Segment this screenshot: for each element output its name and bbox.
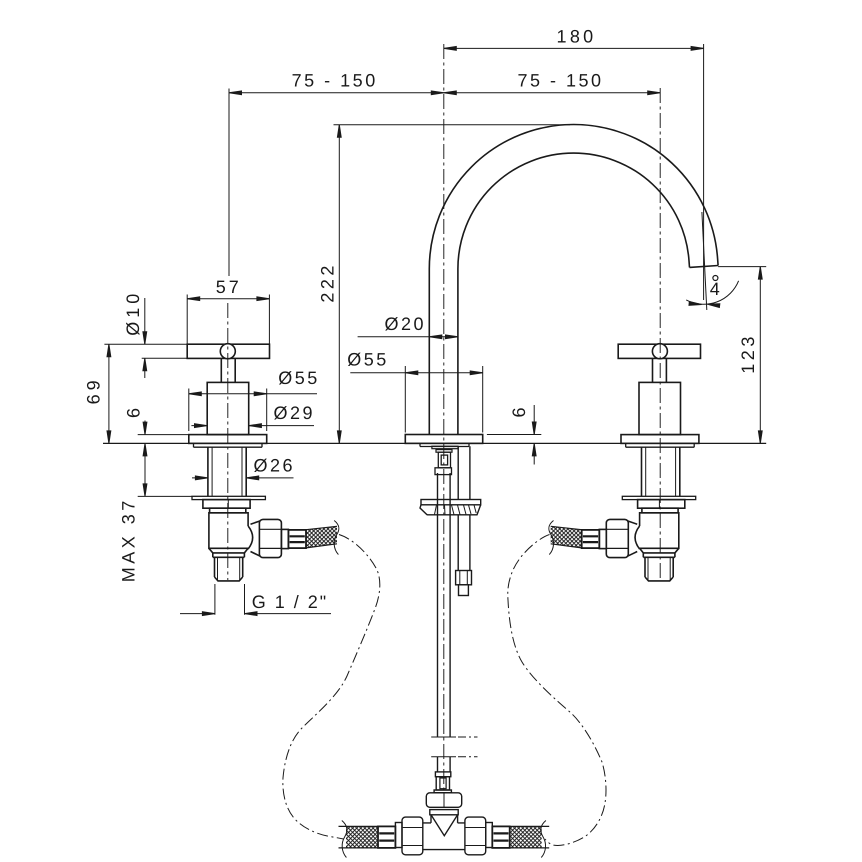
angle 4deg arc <box>686 281 738 304</box>
dimension 6 right: extension and arrows <box>487 434 541 436</box>
extension line right of 180 / 4deg reference <box>703 44 705 300</box>
locknut <box>203 500 250 509</box>
handle escutcheon D55 <box>189 435 267 444</box>
connector with window <box>438 452 450 468</box>
svg-text:6: 6 <box>123 405 143 418</box>
dimension 123 line <box>759 267 761 444</box>
spout gooseneck inner edge <box>458 153 690 434</box>
dimension D20 line <box>358 336 458 338</box>
port union nut <box>259 519 281 557</box>
dimension G 1/2 line and extensions <box>180 613 331 615</box>
svg-text:75 - 150: 75 - 150 <box>292 71 378 91</box>
center escutcheon lip <box>420 443 469 446</box>
dimension D55 center line and extensions <box>350 372 482 374</box>
extension line handle bar top <box>104 343 187 345</box>
svg-text:123: 123 <box>738 333 758 374</box>
center below-counter assembly <box>420 446 481 772</box>
left handle center line <box>227 303 229 580</box>
tee left hose break <box>342 821 347 858</box>
tee assembly at bottom <box>339 772 550 858</box>
svg-text:G 1 / 2": G 1 / 2" <box>252 592 328 612</box>
escutcheon lip <box>194 443 263 447</box>
counter top line <box>103 442 766 444</box>
svg-text:75 - 150: 75 - 150 <box>517 71 603 91</box>
dimension D26 line <box>192 477 294 479</box>
dimension D29 line <box>191 425 314 427</box>
main center line <box>443 44 445 791</box>
dimension 75-150 right line <box>444 92 660 94</box>
right handle center line (also 75-150 extension) <box>659 88 661 580</box>
dimension D55 left line and extensions <box>189 393 317 395</box>
tee left union nut <box>402 817 423 855</box>
handle hub circle <box>220 344 235 359</box>
hose ferrule <box>288 530 306 548</box>
handle cylinder D29 <box>207 382 249 434</box>
body port bulge <box>248 526 253 549</box>
svg-text:MAX 37: MAX 37 <box>118 497 138 582</box>
svg-text:Ø55: Ø55 <box>347 349 389 369</box>
dimension 57 line <box>187 298 269 300</box>
dimension 75-150 left line <box>229 92 444 94</box>
svg-text:Ø20: Ø20 <box>385 314 427 334</box>
dimension MAX 37 line <box>144 443 146 496</box>
svg-text:6: 6 <box>509 405 529 418</box>
spout mouth face <box>690 266 719 268</box>
spout gooseneck outer edge <box>429 124 718 434</box>
svg-text:222: 222 <box>318 262 338 303</box>
svg-text:57: 57 <box>216 277 242 297</box>
handle stem <box>221 359 235 383</box>
hose break curve <box>334 521 339 555</box>
svg-text:Ø10: Ø10 <box>123 290 143 336</box>
svg-text:180: 180 <box>557 26 597 46</box>
left phantom hose curve <box>283 535 380 840</box>
extension line spout top <box>334 124 571 126</box>
neck collar <box>210 508 246 513</box>
collar below window <box>434 790 451 793</box>
degree circle of 4deg <box>713 276 718 281</box>
lower collar <box>435 468 452 475</box>
dimension 180 line <box>444 47 704 49</box>
G1/2 nipple <box>215 557 243 581</box>
dimension 222 line <box>338 125 340 444</box>
left side assembly (handle + valve + hose) <box>187 344 339 581</box>
svg-text:Ø26: Ø26 <box>254 456 296 476</box>
extension line handle bar bottom <box>142 357 188 359</box>
body taper <box>209 548 248 553</box>
dimension 6 left: extension and arrows <box>138 434 189 436</box>
hose adapter <box>281 529 288 548</box>
braided hose <box>306 526 337 548</box>
extension line spout outlet <box>718 266 766 268</box>
right phantom hose curve <box>508 535 606 846</box>
mounting stud upper <box>458 446 470 499</box>
angle 4deg axis line <box>702 212 707 310</box>
center escutcheon <box>405 435 482 444</box>
stud nut <box>456 571 472 585</box>
tee left braided hose <box>346 826 378 848</box>
tube below break <box>438 757 451 772</box>
supply tube <box>438 473 451 737</box>
collar above window <box>435 772 450 777</box>
svg-text:69: 69 <box>83 376 103 404</box>
handle cross bar <box>187 344 269 358</box>
dimension D10: arrows above/below bar <box>144 298 146 344</box>
washer <box>192 496 265 499</box>
mounting bracket <box>421 500 481 505</box>
valve body <box>209 513 248 549</box>
nut collar <box>430 810 458 815</box>
extension line left handle top <box>228 89 230 277</box>
thread band <box>213 553 245 557</box>
svg-text:4: 4 <box>710 279 720 299</box>
step under lip <box>432 446 458 449</box>
svg-text:Ø29: Ø29 <box>274 403 316 423</box>
threaded shank D26 <box>208 447 246 496</box>
tee top nut <box>426 793 461 808</box>
right side assembly: handle + valve + hose (mirrored) <box>549 344 701 581</box>
svg-text:Ø55: Ø55 <box>278 368 320 388</box>
connector with window <box>436 777 449 790</box>
extension line washer top <box>138 495 192 497</box>
tee right union nut + ferrule + hose (mirrored) <box>465 817 549 857</box>
side port cone <box>251 521 261 556</box>
dimension 69 line <box>108 344 110 443</box>
tee horizontal body <box>420 823 468 850</box>
tee left adapter <box>395 823 402 848</box>
tube break lines <box>431 737 456 757</box>
stud end square <box>459 585 469 596</box>
tee vertical body sides <box>431 815 458 823</box>
tee V seam <box>431 815 458 836</box>
mounting stud lower <box>458 515 470 571</box>
tee left ferrule <box>378 826 395 848</box>
upper collar <box>436 450 452 453</box>
